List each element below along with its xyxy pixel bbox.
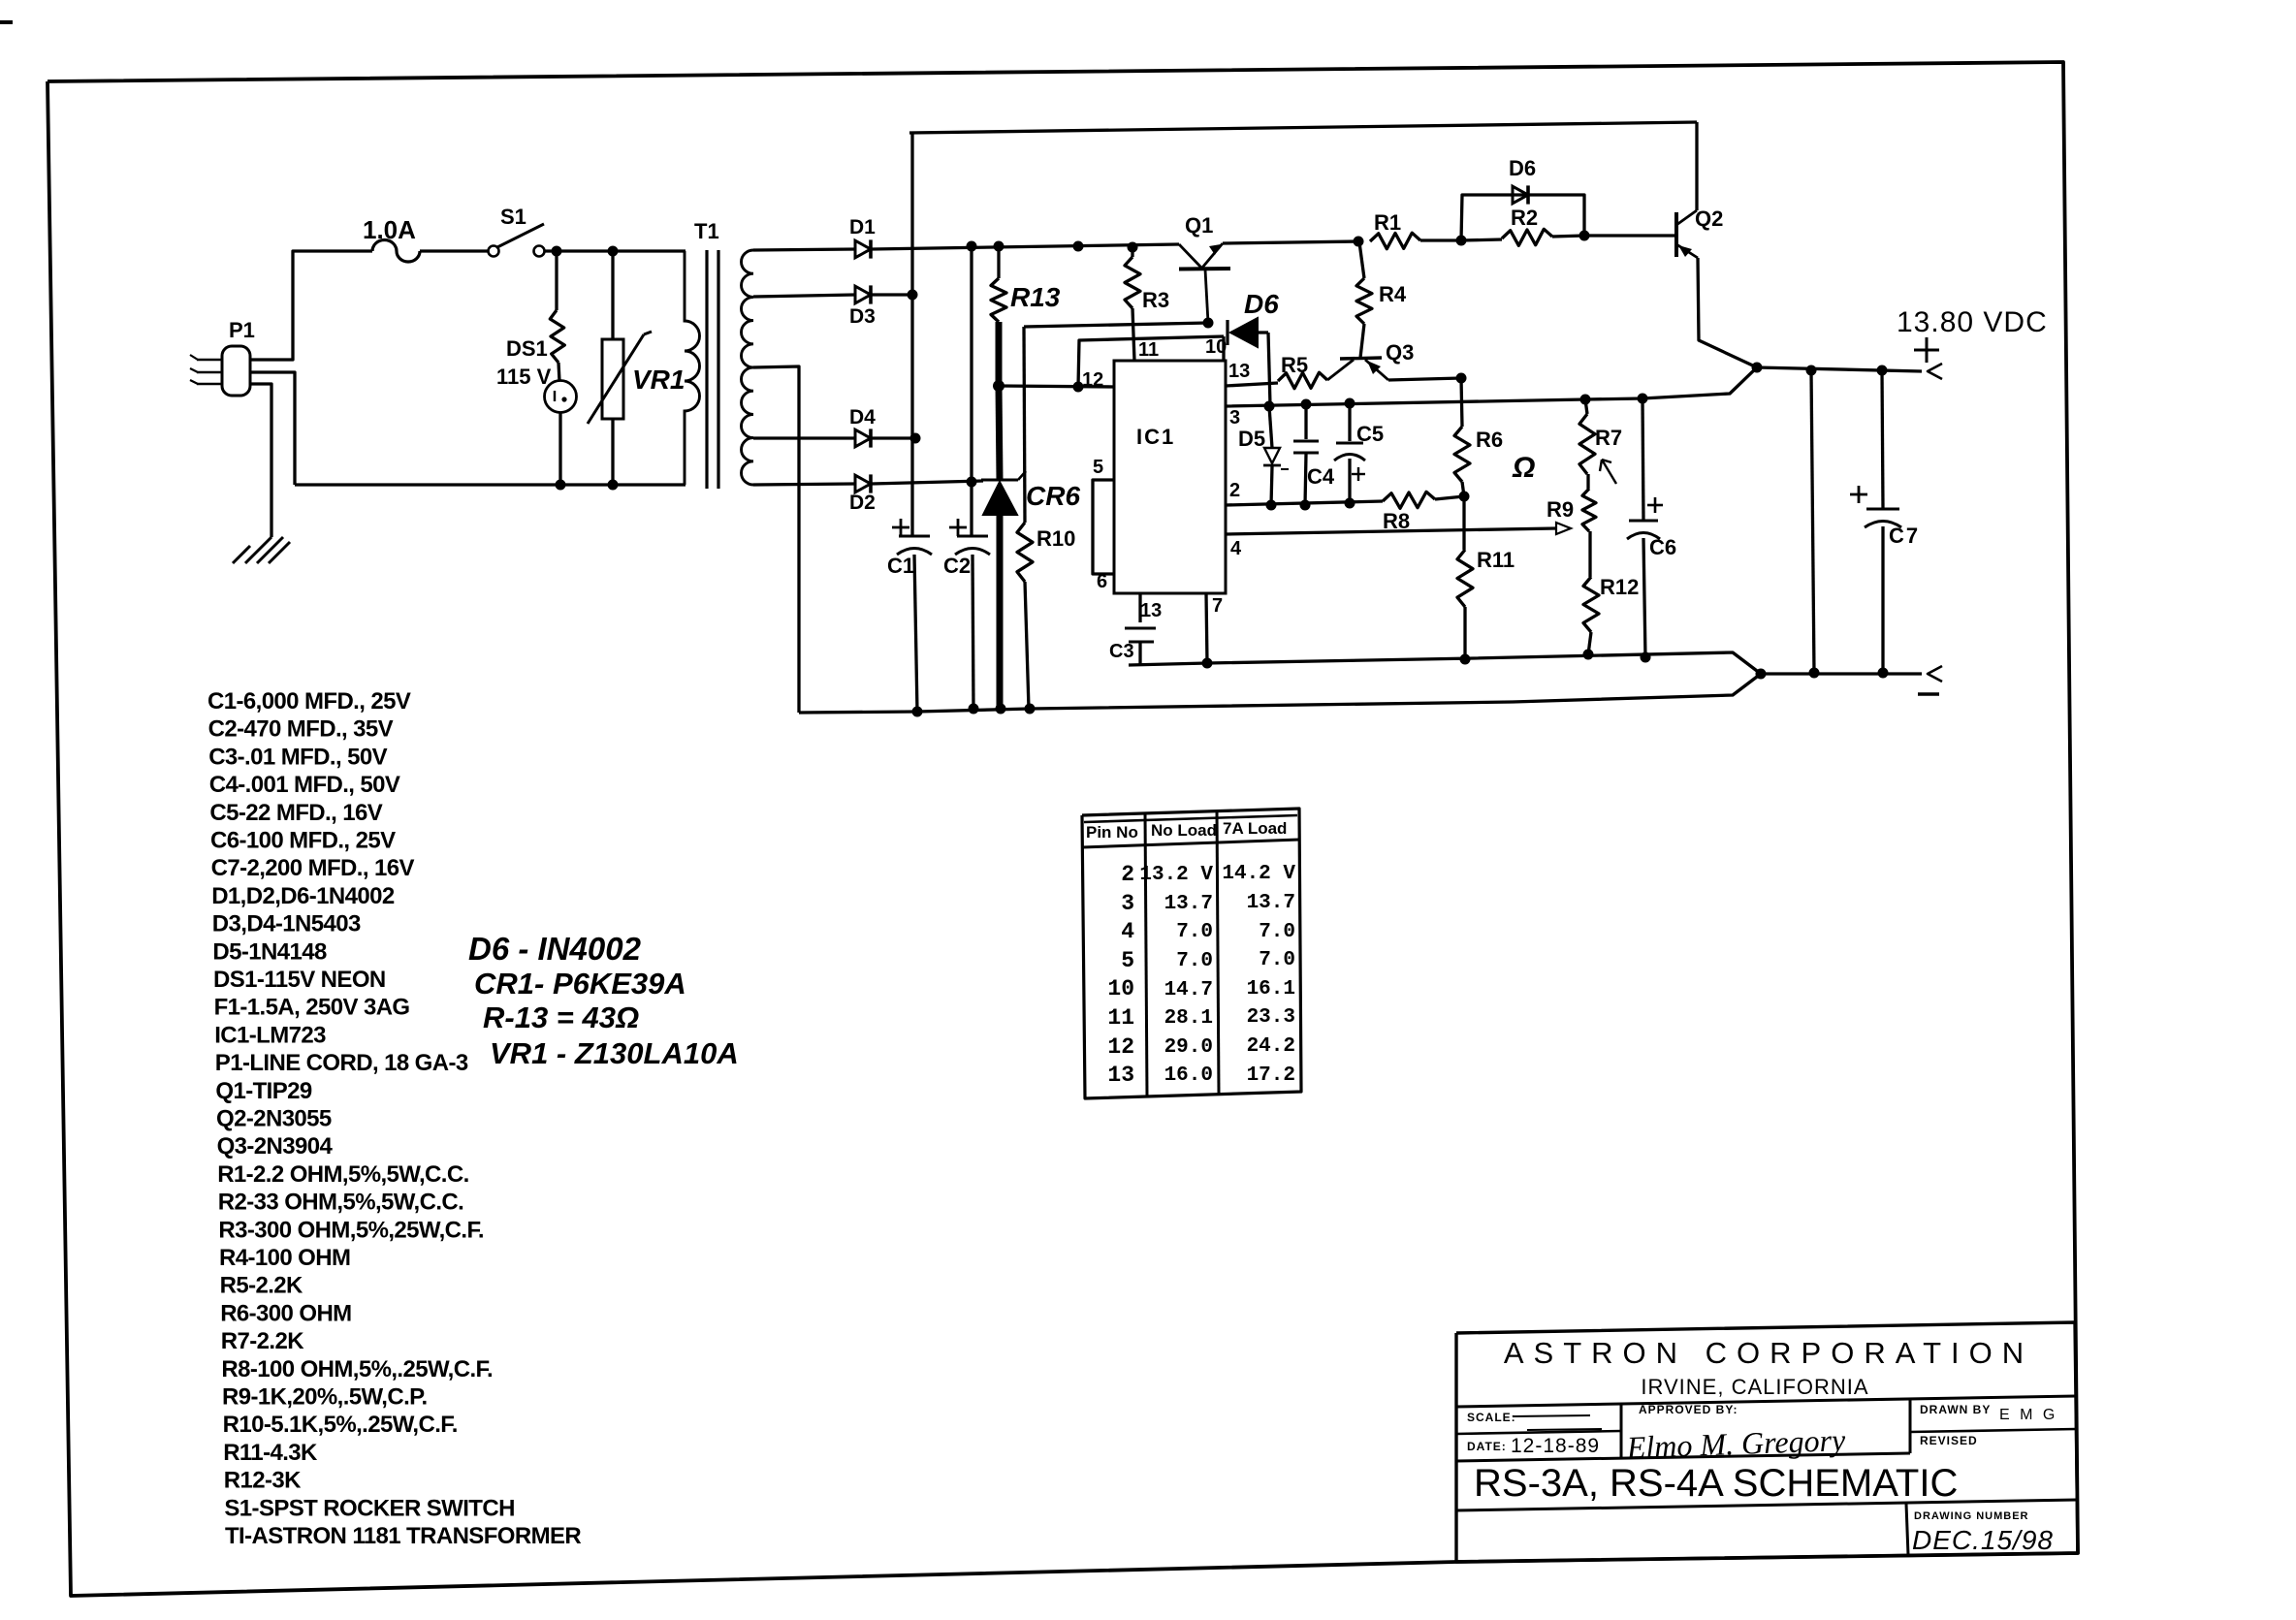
varistor VR1 xyxy=(611,251,614,339)
capacitor C3 xyxy=(1125,627,1156,630)
svg-text:R9: R9 xyxy=(1547,497,1574,522)
wire bottom primary xyxy=(295,483,686,486)
svg-text:RS-3A, RS-4A SCHEMATIC: RS-3A, RS-4A SCHEMATIC xyxy=(1474,1462,1958,1505)
svg-text:D1: D1 xyxy=(849,216,876,238)
title drawnby divider xyxy=(1910,1429,2076,1432)
svg-text:CR6: CR6 xyxy=(1026,481,1080,511)
svg-text:13.80 VDC: 13.80 VDC xyxy=(1897,306,2048,338)
svg-text:R4: R4 xyxy=(1379,282,1407,306)
node C2 top xyxy=(967,241,977,252)
svg-text:10: 10 xyxy=(1107,976,1134,1001)
svg-text:C2: C2 xyxy=(943,554,971,578)
svg-text:Pin No: Pin No xyxy=(1086,823,1138,842)
diode D6 bypass loop xyxy=(1461,195,1584,240)
title bottom divider xyxy=(1906,1504,1908,1555)
svg-text:C1: C1 xyxy=(887,554,914,578)
svg-text:13: 13 xyxy=(1140,600,1162,621)
scan speck top-left xyxy=(0,20,13,24)
diode D3 xyxy=(855,286,871,303)
svg-text:4: 4 xyxy=(1121,919,1134,944)
svg-text:D3,D4-1N5403: D3,D4-1N5403 xyxy=(212,911,361,937)
svg-text:VR1 - Z130LA10A: VR1 - Z130LA10A xyxy=(490,1036,739,1070)
wire fuse to S1 xyxy=(420,249,488,252)
svg-text:T1: T1 xyxy=(694,219,719,243)
svg-text:4: 4 xyxy=(1230,538,1242,559)
svg-text:13.2 V: 13.2 V xyxy=(1139,864,1213,886)
svg-text:7.0: 7.0 xyxy=(1259,949,1295,971)
svg-text:TI-ASTRON 1181 TRANSFORMER: TI-ASTRON 1181 TRANSFORMER xyxy=(225,1523,581,1549)
ground symbol xyxy=(245,537,271,563)
capacitor C4 xyxy=(1304,404,1307,439)
svg-text:23.3: 23.3 xyxy=(1247,1006,1295,1029)
svg-text:7.0: 7.0 xyxy=(1259,921,1295,943)
minus output rail xyxy=(1761,672,1922,675)
svg-text:R-13 = 43Ω: R-13 = 43Ω xyxy=(483,1001,639,1034)
svg-text:11: 11 xyxy=(1138,339,1159,361)
P1 prong 1 xyxy=(197,359,222,362)
svg-text:14.7: 14.7 xyxy=(1164,979,1213,1001)
switch S1 xyxy=(489,246,499,257)
svg-text:R6: R6 xyxy=(1476,428,1503,452)
svg-text:C7: C7 xyxy=(1889,524,1920,548)
output plus connector xyxy=(1928,364,1942,379)
signature xyxy=(1625,1422,1846,1465)
svg-text:R5: R5 xyxy=(1281,353,1308,377)
svg-text:Q1-TIP29: Q1-TIP29 xyxy=(215,1078,311,1104)
pin 13 bottom stub xyxy=(1138,593,1141,622)
P1 prong 3 xyxy=(197,383,222,386)
svg-text:C5: C5 xyxy=(1356,422,1384,446)
node R2 right xyxy=(1579,231,1590,241)
svg-text:APPROVED BY:: APPROVED BY: xyxy=(1639,1403,1738,1416)
pin 11 stub + R3 xyxy=(1131,247,1133,257)
wire pin12 up-over xyxy=(1078,336,1224,387)
node R6-R8-R11 xyxy=(1459,492,1470,502)
resistor R4 xyxy=(1359,242,1364,278)
svg-text:Q2-2N3055: Q2-2N3055 xyxy=(216,1106,332,1132)
node C6 top xyxy=(1638,394,1648,404)
fuse F1 1.0A xyxy=(372,240,420,262)
svg-text:C6-100 MFD., 25V: C6-100 MFD., 25V xyxy=(210,828,396,854)
node D5 top xyxy=(1264,401,1275,412)
output minus connector xyxy=(1928,666,1942,682)
capacitor C5 xyxy=(1348,403,1351,441)
transistor Q3 xyxy=(1340,358,1382,359)
title row line 2 xyxy=(1456,1453,1910,1461)
node R10 bottom xyxy=(1025,704,1036,715)
svg-text:R9-1K,20%,.5W,C.P.: R9-1K,20%,.5W,C.P. xyxy=(222,1384,428,1411)
node D4 junction xyxy=(910,433,921,444)
node C5 top xyxy=(1345,398,1355,409)
node R12 bottom xyxy=(1583,650,1594,660)
svg-text:D3: D3 xyxy=(849,305,876,328)
diode D5 xyxy=(1269,406,1272,448)
Q2 collector wire xyxy=(1695,122,1698,210)
svg-text:D5: D5 xyxy=(1238,427,1265,451)
resistor R10 xyxy=(1024,327,1025,523)
svg-text:E M G: E M G xyxy=(1999,1407,2057,1423)
svg-text:C2-470 MFD., 35V: C2-470 MFD., 35V xyxy=(208,716,394,743)
pin 7 stub xyxy=(1206,593,1207,663)
svg-text:SCALE:: SCALE: xyxy=(1467,1411,1516,1424)
resistor R11 xyxy=(1462,496,1465,550)
svg-text:F1-1.5A, 250V 3AG: F1-1.5A, 250V 3AG xyxy=(214,995,410,1021)
neon lamp DS1 xyxy=(555,251,558,310)
T1 tap to D4 xyxy=(753,436,855,439)
node pin12 stub xyxy=(1073,382,1084,393)
pin 4 row to R9 wiper xyxy=(1226,528,1556,534)
svg-text:6: 6 xyxy=(1097,571,1107,592)
svg-text:115 V: 115 V xyxy=(496,365,552,389)
title cell v2 xyxy=(1909,1399,1912,1453)
pot R9 xyxy=(1586,474,1589,489)
resistor R2 xyxy=(1461,239,1502,240)
svg-text:2: 2 xyxy=(1229,480,1240,501)
diode D6 at pin10 xyxy=(1226,320,1228,345)
wire D2 out xyxy=(872,481,983,484)
node C7 bottom xyxy=(1878,668,1889,679)
node vert A bottom xyxy=(1809,668,1820,679)
svg-text:DRAWING NUMBER: DRAWING NUMBER xyxy=(1914,1510,2029,1522)
wire Q3 emitter xyxy=(1388,378,1461,380)
svg-text:R7-2.2K: R7-2.2K xyxy=(221,1328,304,1354)
node C6 bottom xyxy=(1641,652,1651,663)
node R11 bottom xyxy=(1460,654,1471,665)
resistor R7 xyxy=(1585,399,1587,414)
plus sign output xyxy=(1914,349,1939,352)
svg-text:D6: D6 xyxy=(1244,289,1279,319)
svg-text:D2: D2 xyxy=(849,492,876,514)
wire node12 to IC pin12 xyxy=(999,386,1114,387)
svg-text:5: 5 xyxy=(1093,457,1103,478)
node D2-C2 xyxy=(967,477,977,488)
svg-text:DS1: DS1 xyxy=(506,336,548,361)
svg-text:R4-100 OHM: R4-100 OHM xyxy=(219,1245,350,1271)
svg-text:12: 12 xyxy=(1107,1034,1134,1060)
P1 prong 2 xyxy=(197,371,222,374)
node C5 bottom xyxy=(1345,498,1355,509)
svg-text:29.0: 29.0 xyxy=(1164,1036,1213,1059)
svg-text:R5-2.2K: R5-2.2K xyxy=(220,1273,303,1299)
node R1-R2 xyxy=(1456,236,1467,246)
node Q3e-R6 xyxy=(1456,373,1467,384)
pin 2 row xyxy=(1226,501,1383,505)
svg-text:17.2: 17.2 xyxy=(1247,1064,1295,1087)
svg-text:D5-1N4148: D5-1N4148 xyxy=(212,938,327,965)
node C4 top xyxy=(1301,399,1312,410)
svg-text:R11-4.3K: R11-4.3K xyxy=(223,1440,318,1466)
pin 5-6 loop xyxy=(1093,480,1114,574)
svg-text:R3: R3 xyxy=(1142,288,1169,312)
svg-text:C6: C6 xyxy=(1649,535,1676,559)
node VR1 top xyxy=(608,246,619,257)
node C7 top xyxy=(1877,365,1888,376)
T1 tap to D1 xyxy=(753,249,855,250)
T1 core xyxy=(705,250,708,489)
svg-text:Q3-2N3904: Q3-2N3904 xyxy=(217,1133,334,1159)
svg-text:IRVINE, CALIFORNIA: IRVINE, CALIFORNIA xyxy=(1641,1375,1868,1399)
node minus merge xyxy=(1756,669,1767,680)
resistor R8 xyxy=(1383,492,1435,508)
node R3 top xyxy=(1128,242,1138,253)
node C4 bottom xyxy=(1300,500,1311,511)
Q2 emitter wire xyxy=(1698,258,1757,367)
table header line xyxy=(1082,840,1299,847)
plus output rail xyxy=(1757,367,1922,371)
svg-text:P1: P1 xyxy=(229,318,255,342)
table col line 2 xyxy=(1217,810,1219,1094)
svg-text:Q3: Q3 xyxy=(1386,340,1414,365)
svg-text:7: 7 xyxy=(1212,595,1223,617)
svg-text:IC1-LM723: IC1-LM723 xyxy=(214,1022,326,1048)
pin 10 stub xyxy=(1222,336,1225,361)
svg-text:R2: R2 xyxy=(1511,206,1538,230)
svg-text:13.7: 13.7 xyxy=(1247,892,1295,914)
crowbar CR6 xyxy=(999,386,1000,479)
svg-text:ASTRON CORPORATION: ASTRON CORPORATION xyxy=(1504,1336,2033,1370)
table box xyxy=(1082,809,1301,1098)
node DS1 bottom xyxy=(556,480,566,491)
svg-text:DS1-115V NEON: DS1-115V NEON xyxy=(213,967,386,993)
table col line 1 xyxy=(1145,813,1147,1096)
node R7 top xyxy=(1580,395,1591,405)
title block outline xyxy=(1456,1322,2078,1562)
resistor R6 xyxy=(1461,378,1462,427)
node C2 bottom xyxy=(969,704,979,715)
wire D4 out xyxy=(872,436,915,439)
svg-text:7A Load: 7A Load xyxy=(1223,819,1287,838)
svg-text:11: 11 xyxy=(1107,1005,1134,1031)
pin 13 wire + R5 xyxy=(1226,383,1278,386)
capacitor C2 xyxy=(970,246,973,535)
transistor Q2 xyxy=(1674,212,1678,257)
node D3 junction xyxy=(908,290,918,301)
wire D1 to Q1 rail xyxy=(872,244,1179,249)
svg-text:D6: D6 xyxy=(1509,156,1536,180)
wire R5 to Q3 base xyxy=(1327,360,1354,380)
capacitor C7 xyxy=(1882,370,1883,508)
diode D1 xyxy=(855,240,871,258)
wire P1 ground lead xyxy=(250,384,271,537)
node S1-DS1 xyxy=(552,246,562,257)
svg-text:R7: R7 xyxy=(1595,426,1622,450)
svg-text:D6 - IN4002: D6 - IN4002 xyxy=(468,931,642,967)
wire S1 to T1 xyxy=(545,249,686,252)
svg-text:C5-22 MFD., 16V: C5-22 MFD., 16V xyxy=(209,800,382,826)
title cell scale-date divider xyxy=(1456,1431,1621,1434)
line cord plug P1 xyxy=(222,346,250,396)
node C1 bottom xyxy=(912,707,923,717)
svg-text:IC1: IC1 xyxy=(1136,425,1175,449)
svg-text:VR1: VR1 xyxy=(632,365,685,395)
svg-text:7.0: 7.0 xyxy=(1176,921,1213,943)
svg-text:R1-2.2 OHM,5%,5W,C.C.: R1-2.2 OHM,5%,5W,C.C. xyxy=(217,1161,468,1188)
svg-text:13: 13 xyxy=(1107,1063,1134,1088)
node CR6 bottom xyxy=(996,704,1006,715)
svg-text:C3-.01 MFD., 50V: C3-.01 MFD., 50V xyxy=(208,744,387,770)
IC1 box xyxy=(1114,361,1226,593)
wire Q1 emitter to R1 xyxy=(1223,241,1358,243)
svg-text:C4: C4 xyxy=(1307,464,1335,489)
svg-text:R1: R1 xyxy=(1374,210,1401,235)
svg-text:Q2: Q2 xyxy=(1695,206,1723,231)
node output plus xyxy=(1752,363,1763,373)
wire P1 neutral return xyxy=(250,372,295,485)
svg-text:No Load: No Load xyxy=(1151,821,1217,840)
svg-text:C7-2,200 MFD., 16V: C7-2,200 MFD., 16V xyxy=(211,855,415,881)
diode D2 xyxy=(855,475,871,492)
svg-text:13: 13 xyxy=(1228,361,1250,382)
svg-text:S1: S1 xyxy=(500,205,526,229)
title cell v1 xyxy=(1620,1404,1623,1458)
svg-text:R11: R11 xyxy=(1477,548,1515,572)
svg-text:REVISED: REVISED xyxy=(1920,1434,1978,1447)
svg-text:R12: R12 xyxy=(1600,575,1639,599)
node R13 top xyxy=(994,241,1004,252)
svg-text:12-18-89: 12-18-89 xyxy=(1511,1435,1600,1457)
T1 tap to D2 xyxy=(753,484,855,485)
pin 3 rail xyxy=(1226,367,1757,406)
svg-text:7.0: 7.0 xyxy=(1176,950,1213,972)
node pin7 xyxy=(1202,658,1213,669)
svg-text:14.2 V: 14.2 V xyxy=(1222,863,1295,885)
svg-text:D1,D2,D6-1N4002: D1,D2,D6-1N4002 xyxy=(211,883,395,909)
node 12 bus xyxy=(993,380,1004,392)
node Q1 base xyxy=(1203,318,1214,329)
node rail mid xyxy=(1073,241,1084,252)
sense wire vertical xyxy=(1811,370,1814,673)
svg-text:D4: D4 xyxy=(849,406,876,429)
svg-text:Ω: Ω xyxy=(1512,452,1535,484)
title bottom row line xyxy=(1456,1500,2077,1510)
capacitor C1 xyxy=(910,133,913,535)
top rail to Q2 collector xyxy=(909,122,1697,133)
wire D3 out xyxy=(872,293,912,296)
svg-text:R2-33 OHM,5%,5W,C.C.: R2-33 OHM,5%,5W,C.C. xyxy=(218,1190,463,1216)
resistor R12 xyxy=(1588,531,1591,577)
svg-text:C3: C3 xyxy=(1109,641,1134,662)
svg-text:3: 3 xyxy=(1121,891,1134,916)
svg-text:R8-100 OHM,5%,.25W,C.F.: R8-100 OHM,5%,.25W,C.F. xyxy=(221,1356,493,1382)
T1 center tap xyxy=(753,366,799,713)
svg-text:28.1: 28.1 xyxy=(1164,1007,1213,1030)
svg-text:DRAWN BY: DRAWN BY xyxy=(1920,1403,1991,1416)
bottom return bus xyxy=(799,674,1761,713)
node D5 bottom xyxy=(1266,500,1277,511)
svg-text:1.0A: 1.0A xyxy=(363,215,416,244)
minus sign output xyxy=(1918,692,1939,695)
T1 tap to D3 xyxy=(753,295,855,297)
pin7 ground rail xyxy=(1129,652,1761,674)
capacitor C6 xyxy=(1642,398,1643,520)
svg-text:R3-300 OHM,5%,25W,C.F.: R3-300 OHM,5%,25W,C.F. xyxy=(218,1217,484,1243)
svg-text:S1-SPST ROCKER SWITCH: S1-SPST ROCKER SWITCH xyxy=(224,1495,514,1521)
resistor R13 xyxy=(991,278,1006,322)
svg-text:16.1: 16.1 xyxy=(1247,978,1295,1001)
svg-text:R10-5.1K,5%,.25W,C.F.: R10-5.1K,5%,.25W,C.F. xyxy=(223,1412,458,1438)
svg-text:R10: R10 xyxy=(1036,526,1075,551)
svg-text:13.7: 13.7 xyxy=(1164,893,1213,915)
svg-text:Q1: Q1 xyxy=(1185,213,1213,238)
T1 primary winding xyxy=(685,251,700,485)
node vert A top xyxy=(1806,365,1817,376)
wire to Q2 base xyxy=(1584,234,1676,237)
svg-text:24.2: 24.2 xyxy=(1247,1035,1295,1058)
svg-text:R12-3K: R12-3K xyxy=(224,1468,302,1494)
svg-text:2: 2 xyxy=(1121,862,1134,887)
node R1 left xyxy=(1354,237,1364,247)
node VR1 bottom xyxy=(608,480,619,491)
svg-text:5: 5 xyxy=(1121,948,1134,973)
svg-text:C1-6,000 MFD., 25V: C1-6,000 MFD., 25V xyxy=(207,688,411,715)
T1 secondary winding xyxy=(741,250,753,485)
diode D4 xyxy=(855,429,871,447)
svg-text:DATE:: DATE: xyxy=(1467,1440,1507,1453)
svg-text:CR1- P6KE39A: CR1- P6KE39A xyxy=(474,967,686,1001)
resistor R1 xyxy=(1370,233,1420,249)
svg-text:R6-300 OHM: R6-300 OHM xyxy=(220,1300,351,1326)
wire P1 hot to top rail xyxy=(250,251,372,360)
svg-text:P1-LINE CORD, 18 GA-3: P1-LINE CORD, 18 GA-3 xyxy=(215,1050,468,1076)
svg-text:12: 12 xyxy=(1082,369,1103,391)
svg-text:C4-.001 MFD., 50V: C4-.001 MFD., 50V xyxy=(209,772,400,798)
svg-text:10: 10 xyxy=(1205,336,1227,358)
title row line 1 xyxy=(1456,1396,2076,1407)
svg-text:DEC.15/98: DEC.15/98 xyxy=(1912,1525,2054,1555)
svg-text:R13: R13 xyxy=(1010,282,1061,312)
svg-text:16.0: 16.0 xyxy=(1164,1064,1213,1087)
wire node10 bus xyxy=(1024,323,1208,327)
svg-text:3: 3 xyxy=(1229,407,1240,429)
transistor Q1 xyxy=(1179,244,1201,268)
